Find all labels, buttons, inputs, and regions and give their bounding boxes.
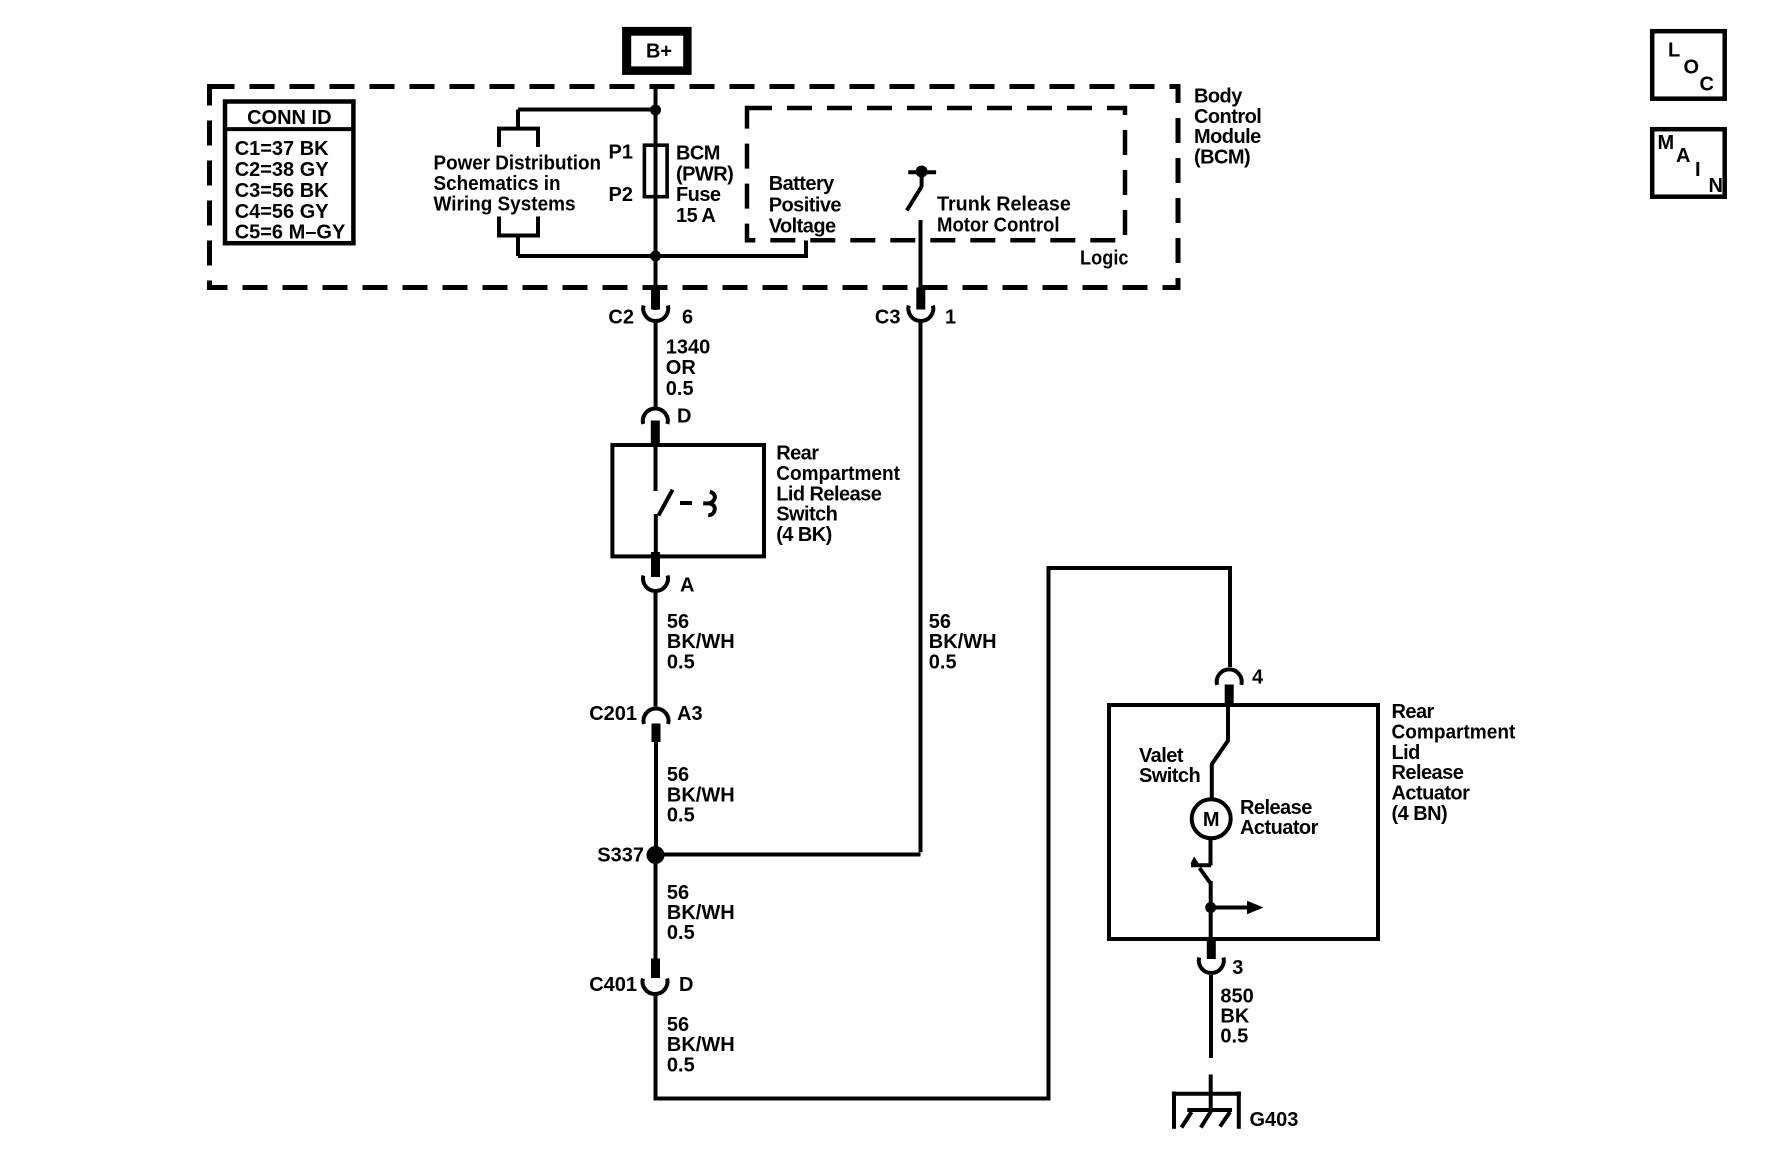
svg-text:Actuator: Actuator (1240, 817, 1319, 839)
svg-text:0.5: 0.5 (667, 651, 695, 673)
connector pin 3 cup (1199, 958, 1224, 973)
svg-text:Power Distribution: Power Distribution (434, 152, 602, 174)
connector C2 pin 6 cup (643, 306, 668, 322)
wire A to C201, circuit 56 BK/WH 0.5 (654, 593, 658, 707)
svg-text:BK/WH: BK/WH (667, 902, 735, 924)
svg-text:56: 56 (667, 764, 689, 786)
svg-text:Rear: Rear (776, 443, 819, 465)
node junction at B+ feed / top branch (650, 105, 661, 116)
wire C2 to switch connector D, circuit 1340 OR 0.5 (654, 321, 658, 408)
wire stub bracket bottom to horizontal (516, 234, 520, 256)
actuator switch tick with arrowhead (1190, 857, 1211, 866)
label Release Actuator (1240, 797, 1319, 839)
switch momentary spring symbol (708, 492, 715, 515)
label 56 BK/WH 0.5 (C401 to actuator) (667, 1014, 735, 1076)
svg-text:Wiring Systems: Wiring Systems (434, 194, 576, 216)
switch momentary dash (680, 501, 692, 505)
wire bottom horizontal from bracket to battery positive voltage input (518, 254, 806, 258)
svg-text:0.5: 0.5 (1220, 1026, 1248, 1048)
connector C201 stub (652, 724, 661, 743)
wire S337 to C401, circuit 56 BK/WH 0.5 (654, 862, 658, 960)
svg-text:Voltage: Voltage (769, 216, 836, 238)
connector C2 pin 6 stub (651, 288, 660, 310)
svg-text:Motor Control: Motor Control (937, 215, 1060, 237)
switch lever (658, 490, 672, 516)
svg-text:3: 3 (1232, 957, 1243, 979)
label Battery Positive Voltage (769, 173, 842, 237)
wire C201 to S337, circuit 56 BK/WH 0.5 (654, 742, 658, 848)
label Rear Compartment Lid Release Switch (4 BK) (776, 443, 900, 547)
svg-text:Actuator: Actuator (1392, 783, 1471, 805)
svg-text:0.5: 0.5 (667, 805, 695, 827)
svg-text:Lid: Lid (1392, 742, 1420, 764)
wire pin 3 to ground, circuit 850 BK 0.5 (1209, 975, 1213, 1058)
connector D stub into switch box (651, 421, 660, 448)
BCM Logic inner dashed outline (747, 108, 1125, 240)
svg-text:OR: OR (666, 357, 697, 379)
svg-text:0.5: 0.5 (667, 922, 695, 944)
svg-text:BK/WH: BK/WH (667, 784, 735, 806)
wire top horizontal to power distribution reference (518, 108, 656, 112)
svg-text:Switch: Switch (776, 504, 837, 526)
wire trunk release output to C3 (919, 220, 923, 290)
svg-text:Switch: Switch (1139, 765, 1200, 787)
wire B+ feed vertical into BCM (654, 85, 658, 310)
svg-text:B+: B+ (646, 41, 672, 63)
svg-text:L: L (1668, 40, 1680, 62)
svg-text:Release: Release (1240, 797, 1312, 819)
connector C3 pin 1 stub (916, 288, 925, 310)
connector A cup (643, 576, 668, 591)
svg-text:0.5: 0.5 (666, 378, 694, 400)
svg-text:C2=38 GY: C2=38 GY (235, 159, 330, 181)
svg-text:15 A: 15 A (676, 205, 715, 227)
svg-text:56: 56 (929, 611, 951, 633)
svg-text:C401: C401 (589, 974, 637, 996)
svg-text:(BCM): (BCM) (1194, 147, 1250, 169)
mechanical action arrow (1211, 901, 1264, 914)
label Trunk Release Motor Control (937, 194, 1071, 237)
svg-text:P1: P1 (609, 142, 633, 164)
svg-text:Logic: Logic (1080, 248, 1129, 270)
power distribution off-page reference bracket top (499, 129, 538, 147)
connector pin 3 stub (1207, 941, 1216, 959)
label BCM (PWR) Fuse 15 A (676, 143, 733, 227)
Body Control Module (BCM) dashed outline (210, 87, 1179, 288)
svg-text:Positive: Positive (769, 194, 842, 216)
svg-text:1: 1 (945, 307, 956, 329)
wire motor to actuator switch (1209, 840, 1213, 866)
label 56 BK/WH 0.5 (A to C201) (667, 611, 735, 673)
svg-text:Control: Control (1194, 106, 1261, 128)
svg-text:Compartment: Compartment (776, 463, 900, 485)
svg-text:(4 BK): (4 BK) (776, 524, 832, 546)
svg-text:Compartment: Compartment (1392, 721, 1516, 743)
svg-text:C5=6 M–GY: C5=6 M–GY (235, 222, 346, 244)
svg-text:A: A (680, 575, 694, 597)
svg-text:BK: BK (1220, 1006, 1249, 1028)
svg-text:BK/WH: BK/WH (667, 1034, 735, 1056)
svg-text:Fuse: Fuse (676, 184, 721, 206)
rear compartment lid release switch box (612, 445, 764, 556)
wire riser into logic box (804, 241, 808, 259)
motor M release actuator (1192, 799, 1231, 838)
connector pin 4 stub (1225, 685, 1234, 704)
svg-text:A3: A3 (677, 703, 703, 725)
label 56 BK/WH 0.5 (C201 to S337) (667, 764, 735, 826)
svg-text:C4=56 GY: C4=56 GY (235, 201, 330, 223)
CONN ID table (225, 102, 353, 244)
wire C401 down, across bottom, up to actuator pin 4 (656, 568, 1231, 1099)
svg-text:Rear: Rear (1392, 701, 1435, 723)
svg-text:D: D (677, 406, 691, 428)
svg-text:BK/WH: BK/WH (667, 631, 735, 653)
svg-text:M: M (1203, 809, 1220, 831)
svg-text:Lid Release: Lid Release (776, 483, 882, 505)
svg-text:Schematics in: Schematics in (434, 173, 561, 195)
connector pin 4 arc at actuator (1217, 669, 1242, 684)
connector A stub below switch box (651, 552, 660, 577)
svg-text:CONN ID: CONN ID (247, 107, 331, 129)
svg-text:(4 BN): (4 BN) (1392, 803, 1448, 825)
switch contact lower lead (654, 514, 658, 559)
svg-text:56: 56 (667, 1014, 689, 1036)
svg-text:C1=37 BK: C1=37 BK (235, 138, 329, 160)
B+ battery positive terminal (622, 27, 692, 75)
svg-text:4: 4 (1252, 667, 1264, 689)
MAIN reference box (1652, 129, 1725, 197)
svg-text:56: 56 (667, 882, 689, 904)
svg-text:D: D (679, 974, 693, 996)
svg-text:Module: Module (1194, 126, 1261, 148)
node junction at B+ feed / bottom branch (650, 251, 661, 262)
svg-text:A: A (1676, 145, 1690, 167)
splice S337 (647, 846, 665, 864)
svg-text:G403: G403 (1250, 1109, 1299, 1131)
svg-text:(PWR): (PWR) (676, 163, 733, 185)
svg-text:BCM: BCM (676, 143, 720, 165)
svg-text:S337: S337 (597, 845, 644, 867)
svg-text:BK/WH: BK/WH (929, 631, 997, 653)
valet switch polyline (1212, 686, 1228, 798)
svg-text:1340: 1340 (666, 337, 711, 359)
wire actuator switch to pin 3 (1209, 881, 1213, 941)
svg-text:C3: C3 (875, 307, 901, 329)
wire stub bracket top to horizontal (516, 110, 520, 131)
label 850 BK 0.5 (1220, 985, 1253, 1047)
svg-text:Body: Body (1194, 85, 1243, 107)
power distribution off-page reference bracket bottom (499, 217, 538, 236)
label 56 BK/WH 0.5 (S337 to C401) (667, 882, 735, 944)
ground G403 (1172, 1075, 1241, 1129)
connector D arc at switch (643, 409, 668, 424)
label Power Distribution Schematics in Wiring Systems (434, 152, 602, 215)
LOC reference box (1652, 31, 1725, 99)
svg-text:56: 56 (667, 611, 689, 633)
rear compartment lid release actuator box (1109, 705, 1378, 939)
svg-text:P2: P2 (609, 184, 633, 206)
svg-text:Trunk Release: Trunk Release (937, 194, 1071, 216)
label Body Control Module (BCM) (1194, 85, 1261, 168)
svg-text:M: M (1658, 132, 1675, 154)
node junction at actuator arrow (1205, 902, 1216, 913)
svg-text:6: 6 (682, 307, 693, 329)
actuator switch lever (1200, 868, 1211, 884)
svg-text:C2: C2 (608, 307, 634, 329)
svg-text:C: C (1700, 74, 1714, 96)
svg-text:N: N (1709, 175, 1723, 197)
wire C3 vertical drop (919, 321, 923, 852)
svg-text:0.5: 0.5 (929, 651, 957, 673)
svg-text:C201: C201 (589, 703, 637, 725)
wire S337 horizontal branch to C3 drop (656, 853, 921, 857)
connector C201 arc (644, 709, 669, 724)
connector C3 pin 1 cup (908, 306, 933, 321)
svg-text:Release: Release (1392, 762, 1464, 784)
label 56 BK/WH 0.5 (C3 branch) (929, 611, 997, 673)
trunk release motor control driver symbol (907, 166, 936, 211)
svg-text:0.5: 0.5 (667, 1054, 695, 1076)
svg-text:850: 850 (1220, 985, 1253, 1007)
svg-text:I: I (1695, 159, 1701, 181)
svg-text:O: O (1684, 57, 1700, 79)
connector C401 stub (651, 959, 660, 979)
connector C401 cup (643, 979, 668, 994)
svg-text:Valet: Valet (1139, 745, 1184, 767)
svg-text:C3=56 BK: C3=56 BK (235, 180, 329, 202)
label Rear Compartment Lid Release Actuator (4 BN) (1392, 701, 1516, 825)
svg-text:Battery: Battery (769, 173, 835, 195)
label Valet Switch (1139, 745, 1200, 787)
switch contact upper lead (654, 444, 658, 491)
label 1340 OR 0.5 (666, 337, 711, 400)
fuse BCM (PWR) 15A (644, 145, 667, 197)
